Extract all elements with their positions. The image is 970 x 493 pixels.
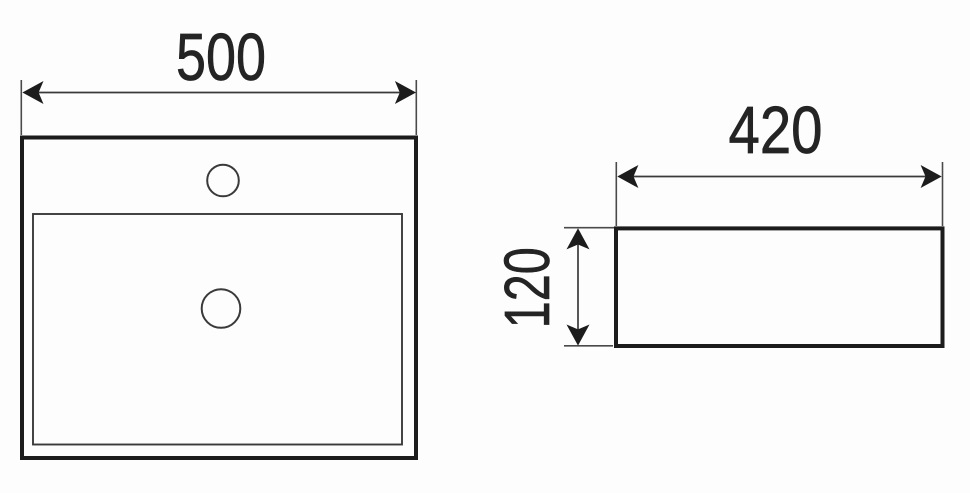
svg-text:120: 120 (491, 247, 563, 328)
dim 500 arrowhead left (22, 81, 43, 104)
dim 120 line (577, 236, 579, 338)
dim 500 arrowhead right (395, 81, 416, 104)
dim 120 extension line bottom (564, 345, 613, 347)
drain hole (202, 289, 241, 328)
dim 120 arrowhead top (567, 228, 590, 249)
dim 420 extension line left (615, 162, 617, 226)
basin side view body (616, 228, 943, 346)
dim 500 extension line right (415, 80, 417, 135)
dim 420 line (625, 176, 934, 178)
svg-text:500: 500 (176, 20, 266, 95)
basin top view outer rim (22, 138, 416, 459)
dim 500 extension line left (20, 80, 22, 135)
basin top view inner bowl (33, 214, 402, 445)
dim 420 extension line right (942, 162, 944, 226)
dim 120 extension line top (564, 227, 614, 229)
faucet hole (207, 165, 239, 197)
dim 420 arrowhead right (921, 165, 942, 188)
svg-text:420: 420 (729, 93, 823, 168)
dim 500 line (30, 92, 408, 94)
dim 120 arrowhead bottom (567, 325, 590, 346)
dim 420 arrowhead left (617, 165, 638, 188)
